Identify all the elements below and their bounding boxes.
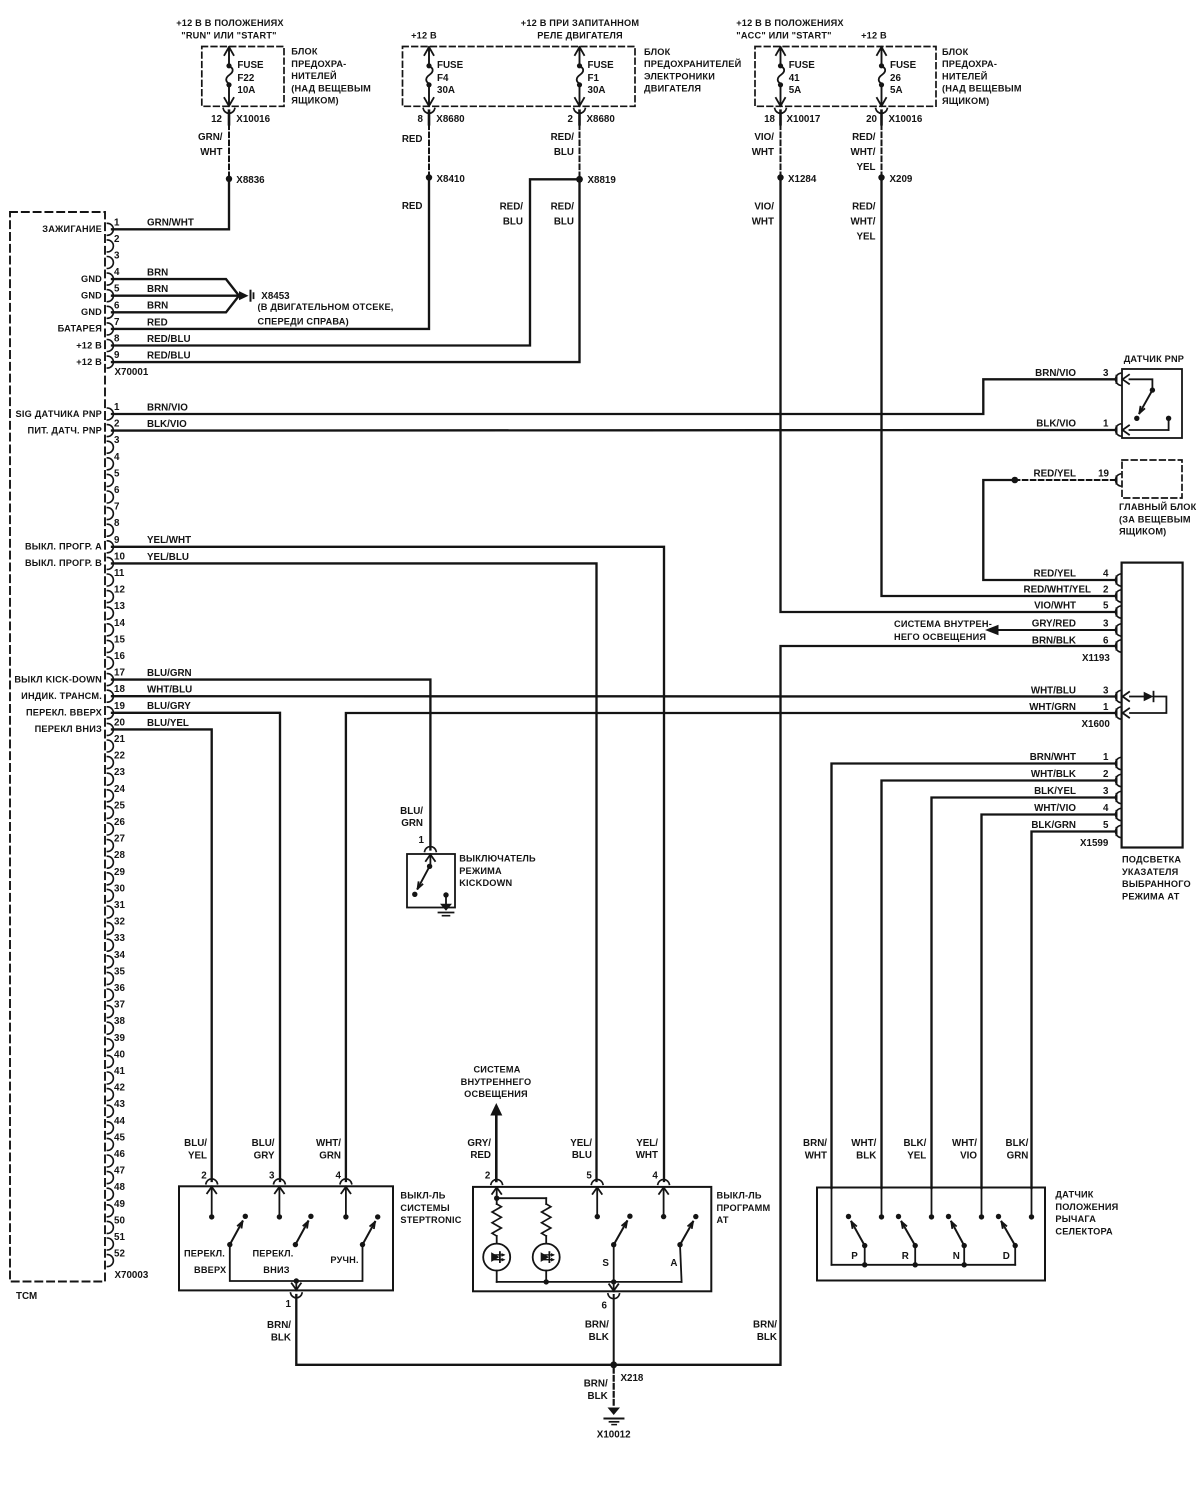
svg-text:GND: GND <box>81 274 102 284</box>
svg-text:ДВИГАТЕЛЯ: ДВИГАТЕЛЯ <box>644 84 701 94</box>
svg-text:15: 15 <box>114 634 125 645</box>
svg-text:X8453: X8453 <box>261 291 290 302</box>
label GRY/RED at box <box>467 1138 491 1161</box>
wire BRN/BLK Steptronic pin1 to X218 <box>296 1295 613 1365</box>
svg-text:18: 18 <box>764 114 775 125</box>
svg-text:3: 3 <box>114 251 120 262</box>
svg-text:41: 41 <box>114 1066 125 1077</box>
svg-text:+12 В: +12 В <box>76 357 102 367</box>
svg-text:9: 9 <box>114 350 120 361</box>
label BRN/BLK left <box>267 1320 291 1344</box>
svg-text:GND: GND <box>81 307 102 317</box>
label RED <box>402 134 423 145</box>
svg-text:S: S <box>602 1258 609 1269</box>
fuse box 3 (over glovebox) dashed outline <box>755 47 936 107</box>
svg-text:ПРЕДОХРАНИТЕЛЕЙ: ПРЕДОХРАНИТЕЛЕЙ <box>644 58 741 69</box>
svg-text:BLK: BLK <box>271 1333 291 1344</box>
connector X1193 pin 6 <box>1116 640 1121 652</box>
svg-text:BLK: BLK <box>588 1391 608 1402</box>
AT program pin 5 number <box>586 1171 592 1182</box>
svg-text:X8410: X8410 <box>437 174 466 185</box>
label BLK/VIO at PNP <box>1036 419 1109 430</box>
svg-text:20: 20 <box>114 717 125 728</box>
svg-text:RED/BLU: RED/BLU <box>147 334 191 345</box>
svg-text:A: A <box>670 1258 677 1269</box>
label RED/BLU branch 2 <box>551 202 575 228</box>
main unit label <box>1119 501 1197 537</box>
svg-text:31: 31 <box>114 900 125 911</box>
svg-text:WHT: WHT <box>805 1150 827 1161</box>
splice X1284 <box>777 174 817 185</box>
svg-text:ВЫБРАННОГО: ВЫБРАННОГО <box>1122 879 1191 889</box>
wire YEL/BLU TCM pin10 to AT program pin 5 <box>112 563 597 1181</box>
fuse 41 <box>775 47 816 124</box>
svg-text:ВЫКЛ. ПРОГР. А: ВЫКЛ. ПРОГР. А <box>25 542 102 552</box>
svg-text:36: 36 <box>114 983 125 994</box>
svg-text:46: 46 <box>114 1149 125 1160</box>
lamp branch 2 (resistor + LED) <box>533 1198 560 1282</box>
svg-text:2: 2 <box>114 234 120 245</box>
svg-text:СИСТЕМЫ: СИСТЕМЫ <box>400 1203 449 1213</box>
svg-text:5A: 5A <box>890 85 903 96</box>
label RED/YEL X1193-4 <box>1034 569 1110 580</box>
Steptronic system switch box <box>179 1179 393 1298</box>
wire VIO/WHT fuse 41 to splice X1284 (dashed) <box>780 125 782 178</box>
svg-text:НИТЕЛЕЙ: НИТЕЛЕЙ <box>942 70 988 81</box>
svg-text:RED/: RED/ <box>852 132 876 143</box>
wire BRN pin5 <box>112 295 239 297</box>
svg-text:ОСВЕЩЕНИЯ: ОСВЕЩЕНИЯ <box>464 1089 528 1099</box>
pin name БАТАРЕЯ <box>58 324 102 334</box>
kickdown switch label <box>459 854 536 889</box>
svg-text:44: 44 <box>114 1116 125 1127</box>
kickdown switch (ВЫКЛЮЧАТЕЛЬ РЕЖИМА KICKDOWN) <box>407 847 455 916</box>
label +12V (F4) <box>411 30 437 40</box>
svg-text:41: 41 <box>789 73 800 84</box>
svg-text:ГЛАВНЫЙ БЛОК: ГЛАВНЫЙ БЛОК <box>1119 501 1197 512</box>
label RED/BLU pin9 <box>147 351 191 362</box>
svg-text:13: 13 <box>114 601 125 612</box>
svg-text:ВВЕРХ: ВВЕРХ <box>194 1265 227 1275</box>
label YEL/WHT at box <box>636 1138 659 1161</box>
svg-text:СПЕРЕДИ СПРАВА): СПЕРЕДИ СПРАВА) <box>258 317 349 327</box>
svg-text:+12 В: +12 В <box>861 30 887 40</box>
svg-text:X10016: X10016 <box>236 114 270 125</box>
svg-text:1: 1 <box>1103 419 1109 430</box>
svg-text:VIO/: VIO/ <box>754 202 774 213</box>
svg-text:WHT/: WHT/ <box>952 1138 977 1149</box>
svg-text:+12 В ПРИ ЗАПИТАННОМ: +12 В ПРИ ЗАПИТАННОМ <box>521 18 640 28</box>
svg-text:2: 2 <box>485 1171 491 1182</box>
svg-text:RED: RED <box>402 201 423 212</box>
svg-text:BLU/YEL: BLU/YEL <box>147 718 189 729</box>
svg-text:BRN/: BRN/ <box>803 1138 827 1149</box>
svg-text:23: 23 <box>114 767 125 778</box>
wire BLK/VIO TCM pin2 to PNP pin 1 <box>112 429 1114 432</box>
svg-text:5: 5 <box>114 468 120 479</box>
svg-text:УКАЗАТЕЛЯ: УКАЗАТЕЛЯ <box>1122 867 1178 877</box>
wire labels at selector sensor <box>803 1138 1029 1161</box>
label RED/BLU branch 1 <box>500 202 524 228</box>
svg-text:X8680: X8680 <box>436 114 465 125</box>
svg-text:F4: F4 <box>437 73 449 84</box>
svg-text:RED: RED <box>470 1150 491 1161</box>
svg-text:WHT: WHT <box>752 217 774 228</box>
svg-text:ДАТЧИК PNP: ДАТЧИК PNP <box>1124 354 1184 364</box>
svg-text:BLK/VIO: BLK/VIO <box>147 419 187 430</box>
svg-text:7: 7 <box>114 502 120 513</box>
svg-text:BRN/: BRN/ <box>584 1379 608 1390</box>
svg-text:2: 2 <box>114 419 120 430</box>
svg-text:BRN: BRN <box>147 268 168 279</box>
label RED pin7 <box>147 317 168 328</box>
svg-text:4: 4 <box>114 267 120 278</box>
svg-text:БЛОК: БЛОК <box>291 47 318 57</box>
connector X10016 pin 12 <box>211 114 271 125</box>
splice X8819 <box>576 175 616 186</box>
connector X1600 pin 1 <box>1116 707 1130 719</box>
svg-text:22: 22 <box>114 751 125 762</box>
svg-text:19: 19 <box>114 701 125 712</box>
label VIO/WHT X1193-5 <box>1034 601 1109 612</box>
svg-text:BRN/VIO: BRN/VIO <box>147 402 188 413</box>
svg-text:6: 6 <box>114 300 120 311</box>
wire BRN/BLK AT program pin6 to X218 <box>613 1295 615 1365</box>
label GRN/WHT pin1 <box>147 218 194 229</box>
svg-text:STEPTRONIC: STEPTRONIC <box>400 1215 461 1225</box>
svg-text:FUSE: FUSE <box>588 60 615 71</box>
TCM connector X70001 pins 1-9 <box>107 217 120 368</box>
connector X1193 pin 3 <box>1116 624 1121 636</box>
svg-text:X8836: X8836 <box>236 175 265 186</box>
AT mode indicator module box <box>1122 563 1183 848</box>
svg-text:БЛОК: БЛОК <box>942 47 969 57</box>
label YEL/BLU pin10 <box>147 552 189 563</box>
X70001 label <box>115 367 149 378</box>
svg-text:12: 12 <box>211 114 222 125</box>
label RED/WHT/YEL lower <box>850 202 875 243</box>
svg-text:ВЫКЛ KICK-DOWN: ВЫКЛ KICK-DOWN <box>14 674 102 684</box>
svg-text:YEL/: YEL/ <box>636 1138 658 1149</box>
wire RED/BLU fuse F1 to splice X8819 (dashed) <box>579 125 581 180</box>
main unit (ГЛАВНЫЙ БЛОК) dashed box <box>1116 460 1182 498</box>
svg-text:X1193: X1193 <box>1082 653 1110 664</box>
svg-text:4: 4 <box>1103 569 1109 580</box>
label BLU/YEL at box <box>184 1138 207 1161</box>
svg-text:X209: X209 <box>890 174 913 185</box>
wire RED/BLU X8819 to TCM pin 9 <box>112 179 580 362</box>
svg-text:ВЫКЛЮЧАТЕЛЬ: ВЫКЛЮЧАТЕЛЬ <box>459 854 536 864</box>
label RED/BLU upper <box>551 132 575 158</box>
svg-text:X10012: X10012 <box>597 1430 631 1441</box>
svg-text:4: 4 <box>652 1171 658 1182</box>
svg-text:12: 12 <box>114 585 125 596</box>
svg-text:ДАТЧИК: ДАТЧИК <box>1055 1190 1093 1200</box>
svg-text:X1600: X1600 <box>1082 719 1111 730</box>
svg-text:ПОЛОЖЕНИЯ: ПОЛОЖЕНИЯ <box>1055 1202 1118 1212</box>
svg-text:BLU: BLU <box>503 217 523 228</box>
wire BRN pin6 <box>112 296 239 313</box>
Steptronic pin 2 number <box>201 1171 207 1182</box>
svg-text:F1: F1 <box>588 73 600 84</box>
pin name ЗАЖИГАНИЕ <box>42 224 102 234</box>
svg-text:X8819: X8819 <box>588 175 617 186</box>
connector X1599 pin 5 <box>1116 825 1121 837</box>
svg-text:ВЫКЛ. ПРОГР. В: ВЫКЛ. ПРОГР. В <box>25 558 102 568</box>
TCM connector X70003 pins 1-52 <box>107 402 125 1267</box>
label RED lower <box>402 201 423 212</box>
svg-text:YEL: YEL <box>907 1150 926 1161</box>
svg-text:9: 9 <box>114 535 120 546</box>
pin name SIG ДАТЧИКА PNP <box>16 409 102 419</box>
svg-text:ПЕРЕКЛ ВНИЗ: ПЕРЕКЛ ВНИЗ <box>35 724 102 734</box>
label BLK/VIO pin2 <box>147 419 187 430</box>
svg-text:НЕГО ОСВЕЩЕНИЯ: НЕГО ОСВЕЩЕНИЯ <box>894 632 986 642</box>
label YEL/BLU at box <box>570 1138 592 1161</box>
Steptronic box name <box>400 1191 461 1226</box>
svg-text:6: 6 <box>602 1300 608 1311</box>
svg-text:RED/WHT/YEL: RED/WHT/YEL <box>1024 585 1092 596</box>
svg-text:(НАД ВЕЩЕВЫМ: (НАД ВЕЩЕВЫМ <box>291 83 371 93</box>
svg-text:GRN: GRN <box>1007 1150 1029 1161</box>
svg-text:BLU: BLU <box>554 217 574 228</box>
svg-text:5A: 5A <box>789 85 802 96</box>
label BLU/GRN pin17 <box>147 668 192 679</box>
svg-text:51: 51 <box>114 1232 125 1243</box>
svg-text:BRN/: BRN/ <box>753 1320 777 1331</box>
svg-text:BRN: BRN <box>147 301 168 312</box>
svg-text:50: 50 <box>114 1215 125 1226</box>
pin name +12 В (8) <box>76 340 102 350</box>
svg-text:ЯЩИКОМ): ЯЩИКОМ) <box>291 96 338 106</box>
wire BLK/YEL X1599 pin 3 to selector sensor <box>932 798 1115 1189</box>
svg-text:42: 42 <box>114 1083 125 1094</box>
svg-text:GRN/WHT: GRN/WHT <box>147 218 194 229</box>
svg-text:19: 19 <box>1098 469 1109 480</box>
svg-text:3: 3 <box>1103 619 1109 630</box>
svg-text:X70001: X70001 <box>115 367 149 378</box>
pin name ПЕРЕКЛ. ВВЕРХ <box>26 708 103 718</box>
svg-text:8: 8 <box>418 114 424 125</box>
svg-text:N: N <box>953 1251 960 1262</box>
svg-text:RED/YEL: RED/YEL <box>1034 469 1076 480</box>
svg-text:FUSE: FUSE <box>237 60 264 71</box>
svg-text:20: 20 <box>866 114 877 125</box>
svg-text:BRN/: BRN/ <box>267 1320 291 1331</box>
pin name +12 В (9) <box>76 357 102 367</box>
label BLU/GRY at box <box>252 1138 275 1161</box>
ground connector X8453 <box>239 291 290 303</box>
svg-text:KICKDOWN: KICKDOWN <box>459 878 512 888</box>
svg-text:38: 38 <box>114 1016 125 1027</box>
svg-text:37: 37 <box>114 1000 125 1011</box>
svg-text:ВНИЗ: ВНИЗ <box>263 1265 289 1275</box>
svg-text:3: 3 <box>1103 686 1109 697</box>
Steptronic pin 4 number <box>335 1171 341 1182</box>
svg-text:1: 1 <box>286 1299 292 1310</box>
wire BRN/BLK X1193 pin6 to X218 <box>614 646 1114 1365</box>
svg-text:RED/BLU: RED/BLU <box>147 351 191 362</box>
svg-text:СЕЛЕКТОРА: СЕЛЕКТОРА <box>1055 1226 1113 1236</box>
svg-text:5: 5 <box>1103 601 1109 612</box>
svg-text:52: 52 <box>114 1249 125 1260</box>
PNP sensor label <box>1124 354 1184 364</box>
svg-text:1: 1 <box>114 217 120 228</box>
AT program switches and rail <box>497 1187 699 1299</box>
svg-text:РЕЖИМА АТ: РЕЖИМА АТ <box>1122 891 1180 901</box>
svg-text:ПИТ. ДАТЧ. PNP: ПИТ. ДАТЧ. PNP <box>28 425 102 435</box>
svg-text:28: 28 <box>114 850 125 861</box>
svg-text:ПЕРЕКЛ.: ПЕРЕКЛ. <box>184 1249 225 1259</box>
svg-text:BLK: BLK <box>856 1150 876 1161</box>
svg-text:WHT/VIO: WHT/VIO <box>1034 803 1076 814</box>
svg-text:YEL/BLU: YEL/BLU <box>147 552 189 563</box>
svg-text:7: 7 <box>114 317 120 328</box>
svg-text:BLU/: BLU/ <box>400 806 423 817</box>
svg-text:X8680: X8680 <box>587 114 616 125</box>
Steptronic pin 1 number <box>286 1299 292 1310</box>
svg-text:1: 1 <box>114 402 120 413</box>
svg-text:РУЧН.: РУЧН. <box>330 1255 358 1265</box>
svg-text:3: 3 <box>269 1171 275 1182</box>
svg-text:ПЕРЕКЛ. ВВЕРХ: ПЕРЕКЛ. ВВЕРХ <box>26 708 103 718</box>
svg-text:+12 В В ПОЛОЖЕНИЯХ: +12 В В ПОЛОЖЕНИЯХ <box>176 18 284 28</box>
wire GRN/WHT splice to TCM pin 1 <box>112 179 229 230</box>
pin name ПЕРЕКЛ ВНИЗ <box>35 724 102 734</box>
connector X1599 pin 1 <box>1116 757 1121 769</box>
wire RED/WHT/YEL fuse 26 to splice X209 (dashed) <box>881 125 883 178</box>
svg-text:WHT/BLU: WHT/BLU <box>1031 686 1076 697</box>
wire RED/WHT/YEL splice to X1193 pin 2 <box>882 178 1115 597</box>
wire BRN/BLK X218 to ground (dashed) <box>613 1368 615 1407</box>
label VIO/WHT upper <box>752 132 775 158</box>
splice X218 <box>610 1361 644 1384</box>
svg-text:47: 47 <box>114 1166 125 1177</box>
svg-text:30: 30 <box>114 883 125 894</box>
svg-text:(НАД ВЕЩЕВЫМ: (НАД ВЕЩЕВЫМ <box>942 84 1022 94</box>
X70003 label <box>115 1270 149 1281</box>
switch label ПЕРЕКЛ. ВНИЗ <box>253 1249 294 1276</box>
splice X8410 <box>426 174 466 185</box>
fuse F22 <box>223 47 264 124</box>
AT program pin 6 number <box>602 1300 608 1311</box>
svg-text:ПРОГРАММ: ПРОГРАММ <box>717 1203 771 1213</box>
svg-text:14: 14 <box>114 618 125 629</box>
svg-text:WHT/BLK: WHT/BLK <box>1031 769 1076 780</box>
svg-text:"RUN" ИЛИ "START": "RUN" ИЛИ "START" <box>181 30 276 40</box>
wire WHT/BLK X1599 pin 2 to selector sensor <box>882 781 1115 1189</box>
svg-text:8: 8 <box>114 334 120 345</box>
connector X1600 pin 3 <box>1116 690 1130 702</box>
wire BLK/GRN X1599 pin 5 to selector sensor <box>1032 832 1115 1189</box>
svg-text:BLK/VIO: BLK/VIO <box>1036 419 1076 430</box>
label BLK/GRN X1599-5 <box>1031 820 1109 831</box>
label GRN/WHT <box>198 132 223 158</box>
label BRN/BLK X1193-6 <box>1032 636 1109 647</box>
svg-text:BLK: BLK <box>757 1332 777 1343</box>
svg-text:5: 5 <box>1103 820 1109 831</box>
label +12V RUN/START <box>176 18 284 40</box>
kickdown pin 1 label <box>419 835 425 846</box>
svg-text:(ЗА ВЕЩЕВЫМ: (ЗА ВЕЩЕВЫМ <box>1119 514 1191 524</box>
svg-text:BLK: BLK <box>589 1332 609 1343</box>
svg-text:27: 27 <box>114 834 125 845</box>
svg-text:30A: 30A <box>588 85 606 96</box>
svg-text:10: 10 <box>114 551 125 562</box>
connector X1599 pin 4 <box>1116 808 1121 820</box>
svg-text:48: 48 <box>114 1182 125 1193</box>
label BLU/YEL pin20 <box>147 718 189 729</box>
svg-text:WHT/: WHT/ <box>851 1138 876 1149</box>
svg-text:СИСТЕМА: СИСТЕМА <box>473 1065 520 1075</box>
wire RED/YEL main unit to X1193 pin 4 <box>983 477 1114 580</box>
wire WHT/VIO X1599 pin 4 to selector sensor <box>982 815 1115 1189</box>
svg-text:16: 16 <box>114 651 125 662</box>
PNP sensor (ДАТЧИК PNP) <box>1116 369 1182 438</box>
svg-text:(В ДВИГАТЕЛЬНОМ ОТСЕКЕ,: (В ДВИГАТЕЛЬНОМ ОТСЕКЕ, <box>258 302 394 312</box>
label BLK/YEL X1599-3 <box>1034 786 1109 797</box>
wire YEL/WHT TCM pin9 to AT program pin 4 <box>112 547 664 1181</box>
svg-text:P: P <box>851 1251 858 1262</box>
svg-text:YEL/: YEL/ <box>570 1138 592 1149</box>
X1599 label <box>1080 838 1109 849</box>
position label D <box>1003 1251 1010 1262</box>
svg-text:33: 33 <box>114 933 125 944</box>
wire BRN/VIO TCM pin1 to PNP pin 3 <box>112 379 1114 414</box>
fuse box 1 (over glovebox) dashed outline <box>202 47 284 107</box>
label +12V at engine relay <box>521 18 640 40</box>
svg-text:WHT/: WHT/ <box>850 217 875 228</box>
connector X1193 pin 5 <box>1116 606 1121 618</box>
pin name GND 4 <box>81 274 102 284</box>
svg-text:X1284: X1284 <box>788 174 817 185</box>
svg-text:FUSE: FUSE <box>789 60 816 71</box>
svg-text:VIO: VIO <box>960 1150 977 1161</box>
svg-text:WHT/: WHT/ <box>850 147 875 158</box>
svg-text:2: 2 <box>568 114 574 125</box>
label BRN/BLK at ground <box>584 1379 608 1403</box>
svg-text:1: 1 <box>1103 702 1109 713</box>
connector X8680 pin 8 <box>418 114 466 125</box>
svg-text:БЛОК: БЛОК <box>644 47 671 57</box>
svg-text:BLK/YEL: BLK/YEL <box>1034 786 1076 797</box>
wire GRN/WHT fuse F22 to splice X8836 (dashed) <box>228 125 230 179</box>
svg-text:GRN/: GRN/ <box>198 132 223 143</box>
switch label S <box>602 1258 609 1269</box>
svg-text:BRN/VIO: BRN/VIO <box>1035 368 1076 379</box>
svg-text:TCM: TCM <box>16 1291 37 1302</box>
svg-text:FUSE: FUSE <box>437 60 464 71</box>
label +12V (fuse 26) <box>861 30 887 40</box>
svg-text:GRN: GRN <box>319 1150 341 1161</box>
svg-text:VIO/WHT: VIO/WHT <box>1034 601 1076 612</box>
svg-text:BLU/: BLU/ <box>252 1138 275 1149</box>
switch label A <box>670 1258 677 1269</box>
svg-text:WHT: WHT <box>636 1150 658 1161</box>
svg-text:BLK/: BLK/ <box>903 1138 926 1149</box>
label WHT/VIO X1599-4 <box>1034 803 1109 814</box>
fuse box 2 (engine electronics) dashed outline <box>403 47 636 107</box>
svg-text:43: 43 <box>114 1099 125 1110</box>
TCM module dashed outline <box>10 212 105 1282</box>
svg-text:40: 40 <box>114 1049 125 1060</box>
svg-text:РЕЖИМА: РЕЖИМА <box>459 866 502 876</box>
wire VIO/WHT splice to X1193 pin 5 <box>781 178 1115 613</box>
note X8453 location <box>258 302 394 327</box>
svg-text:34: 34 <box>114 950 125 961</box>
switch label ПЕРЕКЛ. ВВЕРХ <box>184 1249 227 1276</box>
svg-text:30A: 30A <box>437 85 455 96</box>
